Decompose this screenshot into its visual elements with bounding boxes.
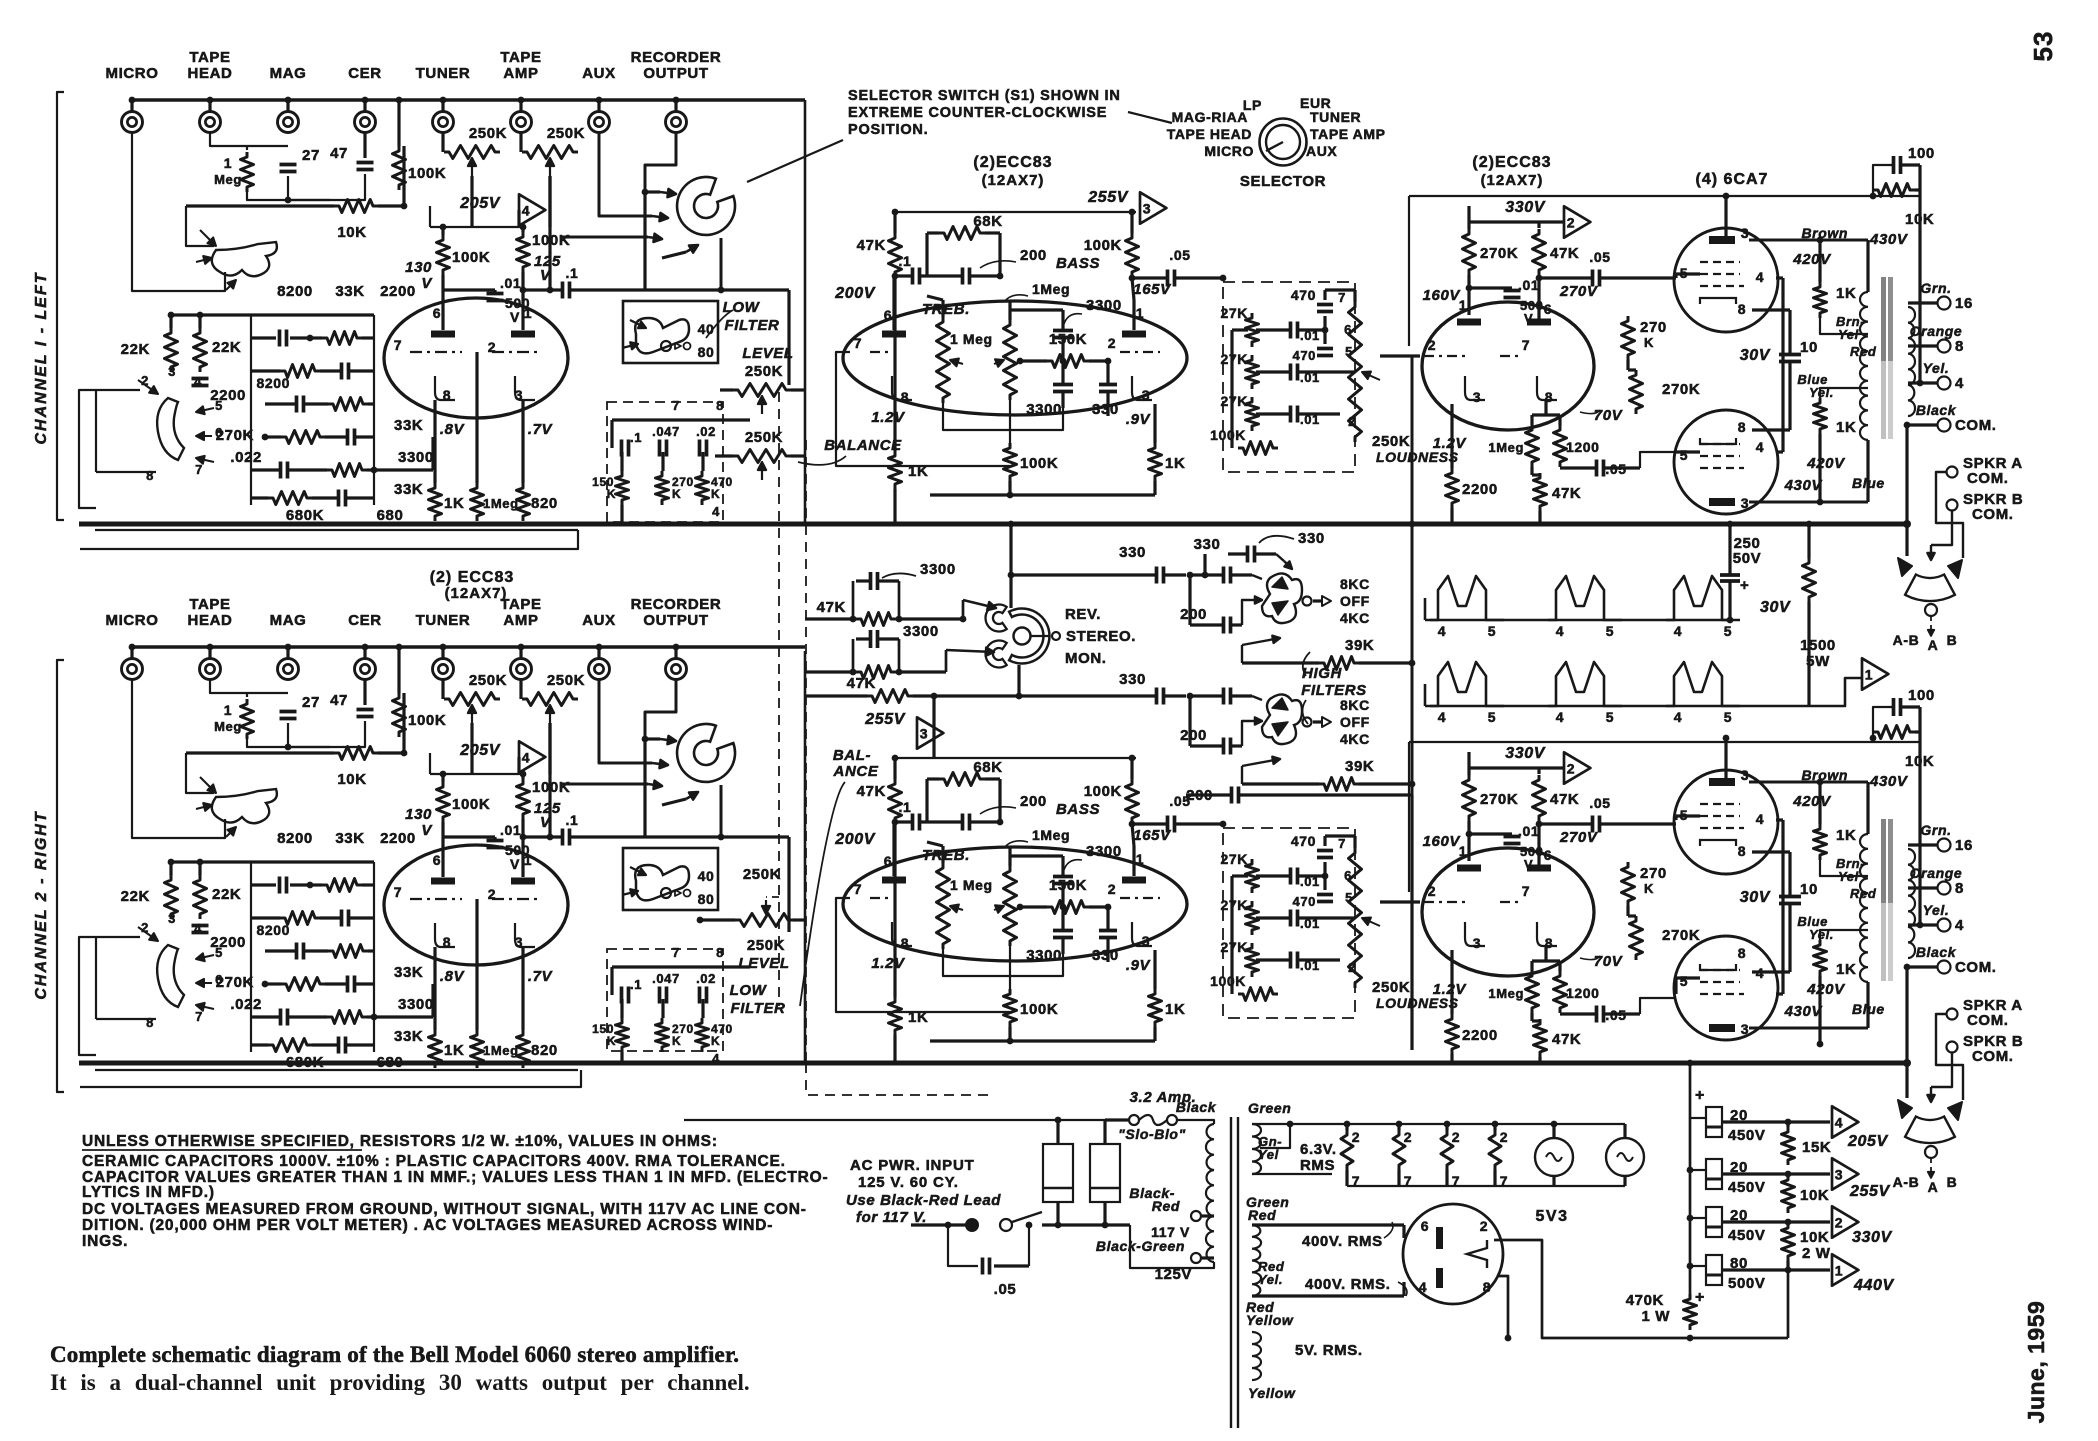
triode V1 ch1 <box>384 298 568 418</box>
svg-text:Black-Green: Black-Green <box>1096 1238 1185 1254</box>
svg-text:3: 3 <box>1142 387 1150 403</box>
svg-text:2: 2 <box>1500 1129 1508 1145</box>
cathode bus vertical ch2 <box>1752 850 1790 853</box>
wire micro to switch ch2 <box>132 680 225 838</box>
capacitor 10 ch1 <box>1779 353 1801 357</box>
capacitor 330 lower ch1 <box>1099 383 1117 387</box>
svg-text:8KC: 8KC <box>1340 697 1370 713</box>
svg-text:4: 4 <box>1438 709 1446 725</box>
wire plates to rail ch1 <box>1724 196 1727 230</box>
screen bus vertical ch2 <box>1781 820 1784 994</box>
svg-text:2200: 2200 <box>1462 1027 1498 1044</box>
resistor 1K lower ch2 <box>1814 940 1827 976</box>
svg-text:TUNER: TUNER <box>1310 109 1361 125</box>
svg-text:2200: 2200 <box>380 830 416 847</box>
tone bottom wire ch2 <box>943 949 1063 976</box>
svg-text:205V: 205V <box>459 195 500 212</box>
svg-text:16: 16 <box>1955 837 1973 854</box>
svg-text:10: 10 <box>1800 339 1818 356</box>
svg-text:Yel.: Yel. <box>1809 385 1834 400</box>
grid dash V2 ch1 <box>870 351 888 353</box>
6CA7 cathode ch2 <box>1700 840 1736 846</box>
svg-text:Complete schematic diagram of: Complete schematic diagram of the Bell M… <box>50 1342 739 1367</box>
svg-text:1K: 1K <box>908 463 928 480</box>
svg-text:33K: 33K <box>394 417 423 434</box>
resistor 1K tail ch2 <box>889 997 902 1035</box>
svg-text:HEAD: HEAD <box>188 65 233 82</box>
wire switch loop ch2 <box>79 937 96 1055</box>
svg-text:330V: 330V <box>1852 1229 1892 1246</box>
svg-text:K: K <box>607 487 616 501</box>
wire ladder to tube ch2 <box>374 1015 433 1018</box>
svg-text:100K: 100K <box>1210 427 1246 443</box>
transformer core ch2 <box>1881 819 1886 903</box>
stereo switch top wire <box>1009 524 1012 608</box>
svg-text:LOW: LOW <box>730 982 768 999</box>
svg-text:REV.: REV. <box>1065 606 1101 623</box>
capacitor .01 driver ch2 <box>1504 835 1521 839</box>
loudness resistor 100K ch1 <box>1238 442 1278 455</box>
secondary wires <box>1252 1123 1625 1125</box>
svg-text:33K: 33K <box>394 481 423 498</box>
svg-text:7: 7 <box>1338 290 1346 305</box>
svg-text:.02: .02 <box>696 424 716 439</box>
gang dashed link ch2 <box>766 896 779 898</box>
capacitor .01 ch2 <box>487 839 504 843</box>
svg-text:Green: Green <box>1248 1100 1291 1116</box>
wire micro to switch ch1 <box>132 133 225 291</box>
capacitor 8200 row3 ch1 <box>295 396 299 413</box>
svg-text:5: 5 <box>1680 973 1688 989</box>
wire arm 4 ch2 <box>662 799 686 805</box>
heater resistor 2 <box>1393 1130 1405 1170</box>
selector wafer upper ch1 <box>212 242 277 276</box>
svg-text:250K: 250K <box>745 363 783 380</box>
svg-text:270: 270 <box>1640 865 1667 882</box>
svg-text:4: 4 <box>1556 709 1564 725</box>
hf right rail <box>1411 356 1414 795</box>
rectifier filament <box>1467 1240 1487 1268</box>
svg-text:420V: 420V <box>1792 793 1832 810</box>
svg-text:Yellow: Yellow <box>1246 1312 1294 1328</box>
hf cap 330 in ch1 <box>1222 567 1226 584</box>
svg-text:MAG-RIAA: MAG-RIAA <box>1172 109 1248 125</box>
svg-text:250K: 250K <box>1372 433 1410 450</box>
svg-text:4KC: 4KC <box>1340 731 1370 747</box>
loudness wires ch2 <box>1232 874 1248 877</box>
svg-text:100K: 100K <box>452 796 490 813</box>
heater resistor row1 1 <box>1430 576 1504 620</box>
resistor 1Meg grid ch2 <box>471 1030 484 1068</box>
row3 resistor 33K ch2 <box>328 945 368 958</box>
svg-text:V: V <box>421 822 433 839</box>
treble pot 1Meg ch2 <box>937 863 950 949</box>
svg-text:1: 1 <box>224 155 232 171</box>
svg-text:.1: .1 <box>630 430 642 445</box>
driver rail ch2 <box>1409 741 1920 743</box>
svg-text:27: 27 <box>302 694 320 711</box>
svg-text:270K: 270K <box>216 427 254 444</box>
resistor 100K plate b ch1 <box>517 232 530 272</box>
svg-text:.1: .1 <box>899 253 912 269</box>
svg-text:250K: 250K <box>547 125 585 142</box>
svg-text:DITION. (20,000 OHM PER VOLT: DITION. (20,000 OHM PER VOLT METER) . AC… <box>82 1217 773 1234</box>
svg-text:.05: .05 <box>994 1281 1017 1298</box>
svg-text:39K: 39K <box>1345 758 1374 775</box>
svg-text:1K: 1K <box>908 1009 928 1026</box>
svg-text:+: + <box>1695 1289 1705 1306</box>
svg-text:INGS.: INGS. <box>82 1233 128 1250</box>
svg-text:3300: 3300 <box>1026 947 1062 964</box>
loudness resistor 27K a ch2 <box>1246 859 1259 893</box>
svg-text:A: A <box>1928 637 1939 653</box>
capacitor 8200 ch2 <box>278 877 282 894</box>
svg-text:CHANNEL 2 - RIGHT: CHANNEL 2 - RIGHT <box>33 810 50 999</box>
resistor 1K V2 ch1 <box>1149 443 1162 481</box>
svg-text:100K: 100K <box>1084 237 1122 254</box>
svg-text:1K: 1K <box>1836 285 1856 302</box>
svg-text:470: 470 <box>1293 348 1317 363</box>
wire plates to rail ch2 <box>1724 738 1727 772</box>
resistor 47K driver ch1 <box>1533 229 1546 275</box>
svg-text:COM.: COM. <box>1955 959 1997 976</box>
svg-text:30V: 30V <box>1760 599 1791 616</box>
svg-text:39K: 39K <box>1345 637 1374 654</box>
6CA7 grid dashes ch2 <box>1700 803 1740 805</box>
svg-text:1 Meg: 1 Meg <box>950 877 993 893</box>
svg-text:8: 8 <box>146 468 154 483</box>
svg-text:1: 1 <box>1459 843 1467 859</box>
svg-text:6: 6 <box>1544 301 1552 317</box>
svg-text:7: 7 <box>1338 836 1346 851</box>
svg-text:270K: 270K <box>1662 927 1700 944</box>
svg-text:TREB.: TREB. <box>922 847 970 864</box>
loudness cap .01 c ch1 <box>1289 406 1293 423</box>
svg-text:AMP: AMP <box>503 612 538 629</box>
resistor 47K b <box>856 666 896 679</box>
svg-text:27K: 27K <box>1221 897 1248 913</box>
svg-text:V: V <box>510 309 520 325</box>
plate V3 right ch2 <box>1527 865 1551 872</box>
svg-text:165V: 165V <box>1133 827 1172 844</box>
rectifier 5V3 <box>1403 1204 1503 1304</box>
svg-text:2200: 2200 <box>380 283 416 300</box>
svg-text:160V: 160V <box>1423 833 1462 850</box>
svg-text:4: 4 <box>712 504 720 519</box>
plate V1 left ch1 <box>431 331 455 338</box>
svg-text:450V: 450V <box>1728 1227 1765 1244</box>
svg-text:Yel.: Yel. <box>1258 1272 1283 1287</box>
resistor 100K cathode V2 ch2 <box>1004 989 1017 1027</box>
svg-text:2: 2 <box>1480 1218 1488 1234</box>
loudness resistor 27K c ch1 <box>1246 397 1259 431</box>
svg-text:430V: 430V <box>1784 1003 1824 1020</box>
svg-text:HEAD: HEAD <box>188 612 233 629</box>
svg-text:1: 1 <box>524 852 532 868</box>
svg-text:OUTPUT: OUTPUT <box>643 612 708 629</box>
svg-text:BASS: BASS <box>1056 255 1100 272</box>
channel 2 box bottom <box>95 1069 578 1071</box>
cathode V3 right ch2 <box>1537 922 1557 946</box>
svg-text:250K: 250K <box>743 866 781 883</box>
svg-text:TAPE AMP: TAPE AMP <box>1310 126 1386 142</box>
svg-text:.022: .022 <box>230 449 262 466</box>
svg-text:(12AX7): (12AX7) <box>445 585 508 602</box>
grid dash V2 ch2 <box>870 897 888 899</box>
svg-text:AC PWR. INPUT: AC PWR. INPUT <box>850 1157 975 1174</box>
svg-text:(2) ECC83: (2) ECC83 <box>430 569 515 586</box>
svg-text:AUX: AUX <box>1306 143 1337 159</box>
svg-text:1Meg: 1Meg <box>1488 986 1524 1001</box>
capacitor .1 tone ch1 <box>911 268 915 285</box>
svg-text:A-B: A-B <box>1893 1174 1920 1190</box>
svg-text:UNLESS OTHERWISE SPECIFIED, RE: UNLESS OTHERWISE SPECIFIED, RESISTORS 1/… <box>82 1133 718 1150</box>
svg-text:8200: 8200 <box>256 375 290 391</box>
svg-text:1 W: 1 W <box>1642 1308 1671 1325</box>
row2 capacitor ch2 <box>340 910 344 927</box>
svg-text:1.2V: 1.2V <box>871 409 906 426</box>
filter cap .1 ch2 <box>620 987 624 1004</box>
svg-text:5: 5 <box>1680 447 1688 463</box>
grid dash V3 ch2 <box>1424 901 1466 903</box>
svg-text:2: 2 <box>1428 337 1436 353</box>
svg-text:70V: 70V <box>1594 407 1624 424</box>
grid dash V3 ch1 <box>1424 355 1466 357</box>
svg-text:330V: 330V <box>1505 745 1545 762</box>
resistor 1K upper ch2 <box>1814 824 1827 860</box>
svg-text:1: 1 <box>524 305 532 321</box>
svg-text:4: 4 <box>1556 623 1564 639</box>
svg-text:6: 6 <box>433 852 441 868</box>
svg-text:100K: 100K <box>1210 973 1246 989</box>
filter cap .1 ch1 <box>620 440 624 457</box>
svg-text:BAL-: BAL- <box>833 747 871 764</box>
svg-text:270K: 270K <box>216 974 254 991</box>
row5 resistor ch1 <box>327 464 367 477</box>
transformer core power <box>1230 1117 1232 1428</box>
svg-text:.01: .01 <box>500 822 521 838</box>
svg-text:1K: 1K <box>1165 455 1185 472</box>
svg-text:MAG: MAG <box>270 612 307 629</box>
svg-text:.047: .047 <box>652 971 680 986</box>
svg-text:A: A <box>1928 1179 1939 1195</box>
row2 capacitor ch1 <box>340 363 344 380</box>
svg-text:2: 2 <box>1352 1129 1360 1145</box>
power arrow 2 out <box>1832 1206 1858 1237</box>
capacitor below 22K ch1 <box>192 377 209 381</box>
driver rail ch1 <box>1409 195 1920 197</box>
svg-text:B: B <box>1947 1174 1958 1190</box>
hf 330 link cap ch1 <box>1155 567 1159 584</box>
svg-text:3: 3 <box>920 726 928 742</box>
line capacitor a <box>1043 1144 1073 1202</box>
svg-text:.7V: .7V <box>528 968 554 985</box>
6CA7 cathode ch1 <box>1700 298 1736 304</box>
svg-text:Brown: Brown <box>1801 225 1848 241</box>
svg-text:.01: .01 <box>500 275 521 291</box>
svg-text:FILTER: FILTER <box>725 317 780 334</box>
svg-text:.9V: .9V <box>1126 411 1152 428</box>
svg-text:250K: 250K <box>745 429 783 446</box>
pilot lamp 2 <box>1606 1138 1644 1176</box>
svg-text:6: 6 <box>1421 1218 1429 1234</box>
loudness resistor 27K b ch1 <box>1246 355 1259 389</box>
svg-text:AUX: AUX <box>582 612 615 629</box>
svg-text:470: 470 <box>1293 894 1317 909</box>
plate V2 left ch1 <box>882 331 906 338</box>
resistor 270K driver ch2 <box>1463 775 1476 821</box>
power arrow 2 driver ch1 <box>1564 206 1590 237</box>
resistor 22K a ch1 <box>165 328 178 372</box>
svg-text:6: 6 <box>884 853 892 869</box>
svg-text:8: 8 <box>443 934 451 950</box>
svg-text:68K: 68K <box>973 213 1002 230</box>
svg-text:BASS: BASS <box>1056 801 1100 818</box>
row4 capacitor ch2 <box>346 976 350 993</box>
svg-text:.1: .1 <box>566 265 579 281</box>
plate V1 left ch2 <box>431 878 455 885</box>
svg-text:1K: 1K <box>1836 961 1856 978</box>
svg-text:2: 2 <box>1567 215 1575 231</box>
6CA7 grid dashes ch1 <box>1700 261 1740 263</box>
svg-text:6: 6 <box>433 305 441 321</box>
triode V3 ch2 <box>1422 848 1594 976</box>
svg-text:.02: .02 <box>696 971 716 986</box>
svg-text:255V: 255V <box>864 711 905 728</box>
power arrow 4 out <box>1832 1106 1858 1137</box>
svg-text:3300: 3300 <box>398 449 434 466</box>
svg-text:V: V <box>421 275 433 292</box>
loudness cap .01 a ch2 <box>1289 868 1293 885</box>
svg-text:330V: 330V <box>1505 199 1545 216</box>
capacitor 3300 lower ch1 <box>1053 383 1073 387</box>
resistor 1Meg V3 ch2 <box>1526 971 1539 1013</box>
cathode V2 left ch1 <box>892 376 912 400</box>
resistor 100K cathode V2 ch1 <box>1004 443 1017 481</box>
channel 2 bracket <box>57 660 64 1092</box>
svg-text:EXTREME COUNTER-CLOCKWISE: EXTREME COUNTER-CLOCKWISE <box>848 105 1107 121</box>
svg-text:1K: 1K <box>1836 419 1856 436</box>
plate V1 right ch1 <box>511 331 535 338</box>
wire arm 3 ch1 <box>560 236 648 239</box>
wire arm 3 ch2 <box>560 783 648 786</box>
svg-text:7: 7 <box>195 462 203 477</box>
svg-text:1.2V: 1.2V <box>1433 435 1468 452</box>
svg-text:(4) 6CA7: (4) 6CA7 <box>1696 171 1769 188</box>
svg-text:2: 2 <box>1428 883 1436 899</box>
rectifier wires <box>1494 1240 1788 1338</box>
capacitor 47 ch2 <box>357 708 374 712</box>
wire arm 4 ch1 <box>662 252 686 258</box>
resistor 22K a ch2 <box>165 875 178 919</box>
svg-text:1: 1 <box>1136 305 1144 321</box>
ladder network frame ch1 <box>250 315 252 505</box>
divider wires <box>1722 1120 1788 1123</box>
selector wafer lower ch2 <box>157 945 184 1007</box>
resistor 470K 1W <box>1684 1294 1697 1330</box>
svg-text:8200: 8200 <box>277 283 313 300</box>
svg-text:680: 680 <box>377 507 404 524</box>
feedback resistor 10K ch2 <box>1873 726 1915 739</box>
grid dash V1 ch2 <box>410 898 462 900</box>
svg-text:5: 5 <box>1488 623 1496 639</box>
hf switch wafer ch1 <box>1262 573 1302 623</box>
resistor 33K row1 ch2 <box>322 879 362 892</box>
row2 resistor ch1 <box>280 365 320 378</box>
svg-text:.047: .047 <box>652 424 680 439</box>
6CA7 grid wires ch2 <box>1676 814 1700 817</box>
channel 1 box bottom <box>95 529 578 531</box>
resistor 1K tail ch1 <box>889 451 902 489</box>
resistor 1200 ch2 <box>1554 971 1567 1013</box>
resistor 100K tone ch1 <box>1126 233 1139 277</box>
svg-text:1: 1 <box>1136 851 1144 867</box>
svg-text:Yel.: Yel. <box>1923 902 1950 918</box>
speaker terminals ch2 <box>1947 1009 1958 1020</box>
svg-text:4: 4 <box>1756 811 1764 827</box>
svg-text:125 V. 60 CY.: 125 V. 60 CY. <box>858 1174 959 1191</box>
svg-text:LYTICS IN MFD.): LYTICS IN MFD.) <box>82 1184 215 1201</box>
svg-text:3: 3 <box>1741 495 1749 511</box>
svg-text:B: B <box>1947 632 1958 648</box>
svg-text:1.2V: 1.2V <box>871 955 906 972</box>
svg-text:4: 4 <box>1674 623 1682 639</box>
svg-text:4: 4 <box>1756 439 1764 455</box>
svg-text:330: 330 <box>1119 671 1146 688</box>
loudness cap 470 mid ch2 <box>1317 893 1333 897</box>
svg-text:470: 470 <box>1291 833 1316 849</box>
svg-text:1K: 1K <box>444 1042 464 1059</box>
svg-text:Brown: Brown <box>1801 767 1848 783</box>
svg-text:2: 2 <box>1567 761 1575 777</box>
filter wires ch2 <box>612 965 750 968</box>
svg-text:4: 4 <box>712 1051 720 1066</box>
wire plate top to transformer ch2 <box>1749 781 1868 784</box>
plate V2 right ch1 <box>1122 331 1146 338</box>
svg-text:OFF: OFF <box>1340 714 1370 730</box>
cathode V1 left ch2 <box>435 923 455 947</box>
svg-text:K: K <box>672 487 681 501</box>
svg-text:.05: .05 <box>1169 247 1190 263</box>
COM drop wire ch1 <box>1905 425 1908 556</box>
svg-text:33K: 33K <box>335 830 364 847</box>
plate V1 right ch2 <box>511 878 535 885</box>
capacitor 3300 lower ch2 <box>1053 929 1073 933</box>
svg-text:1Meg: 1Meg <box>1032 827 1070 843</box>
svg-text:CHANNEL I - LEFT: CHANNEL I - LEFT <box>33 271 50 444</box>
svg-text:1Meg: 1Meg <box>1032 281 1070 297</box>
resistor 1K V2 ch2 <box>1149 989 1162 1027</box>
capacitor .1 tone ch2 <box>911 814 915 831</box>
heater resistor row2 2 <box>1548 662 1622 706</box>
svg-text:1Meg: 1Meg <box>483 496 519 511</box>
svg-text:HIGH: HIGH <box>1302 665 1342 682</box>
svg-text:Yel.: Yel. <box>1923 360 1950 376</box>
svg-text:TAPE: TAPE <box>500 49 541 66</box>
hf cap 330 pair ch1 <box>1246 546 1250 563</box>
capacitor 3300 b <box>869 630 873 648</box>
heater bottom wire <box>1347 1185 1625 1187</box>
svg-text:33K: 33K <box>335 283 364 300</box>
svg-text:3: 3 <box>1142 933 1150 949</box>
svg-text:330: 330 <box>1298 530 1325 547</box>
svg-text:MICRO: MICRO <box>106 612 159 629</box>
svg-text:27: 27 <box>302 147 320 164</box>
svg-text:1: 1 <box>1865 667 1873 683</box>
svg-text:FILTERS: FILTERS <box>1301 682 1367 699</box>
low filter wafer ch2 <box>635 865 689 900</box>
wire aux arm ch2 <box>599 680 652 763</box>
